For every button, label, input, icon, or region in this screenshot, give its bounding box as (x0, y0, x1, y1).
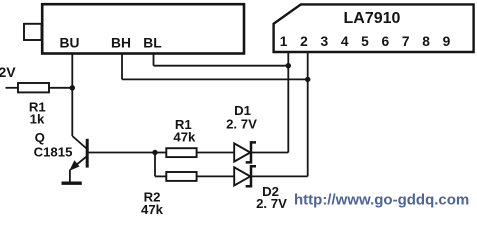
svg-text:2. 7V: 2. 7V (226, 117, 257, 132)
wire: pin1 riser (287, 52, 289, 153)
wire: R1 to node A (49, 87, 72, 89)
wire: node B down (154, 153, 156, 177)
svg-text:1: 1 (280, 34, 288, 49)
svg-text:1k: 1k (30, 112, 45, 127)
svg-text:2V: 2V (0, 64, 16, 80)
wire: R 47k lower to D2 (197, 175, 235, 177)
node C junction dot (pin1/BL) (286, 63, 291, 68)
zener diode D1 (234, 143, 250, 161)
zener diode D2 (234, 167, 250, 185)
svg-text:8: 8 (422, 34, 430, 49)
resistor R3 47k (lower) (166, 172, 196, 181)
node A junction dot (70, 85, 75, 90)
node D junction dot (pin2/BH) (305, 77, 310, 82)
transistor Q1 bar (86, 139, 89, 168)
svg-text:47k: 47k (141, 202, 164, 215)
node B junction dot (152, 150, 157, 155)
wire: pin2 riser (307, 52, 309, 176)
svg-text:5: 5 (361, 34, 369, 49)
wire: supply input to R1 (6, 87, 19, 89)
transistor Q1 C1815 collector lead (72, 136, 86, 149)
connector nub on tuner (24, 24, 42, 40)
svg-text:9: 9 (443, 34, 451, 49)
resistor R1 1k (18, 83, 49, 92)
wire: D2 cathode to pin2 riser (251, 175, 308, 177)
wire: BH pin down (121, 53, 123, 79)
wire: BU pin down to collector (71, 53, 73, 136)
svg-text:http://www.go-gddq.com: http://www.go-gddq.com (294, 192, 469, 209)
wire: BL to pin1 (154, 65, 289, 67)
svg-text:Q: Q (35, 130, 45, 145)
svg-text:C1815: C1815 (34, 145, 73, 160)
svg-text:6: 6 (382, 34, 390, 49)
wire: node B to R3 47k lower (155, 175, 166, 177)
wire: BH to pin2 (122, 78, 308, 80)
ground (62, 181, 82, 184)
svg-text:BL: BL (143, 36, 161, 51)
transistor Q1 emitter lead with arrow (72, 157, 87, 169)
wire: R 47k upper to D1 (197, 152, 235, 154)
svg-text:BH: BH (111, 36, 131, 51)
svg-text:3: 3 (320, 34, 328, 49)
wire: D1 cathode to pin1 riser (251, 152, 288, 154)
svg-text:2. 7V: 2. 7V (256, 196, 287, 211)
wire: BL pin down (153, 53, 155, 66)
svg-text:BU: BU (60, 36, 80, 51)
tuner block U1 (42, 4, 244, 53)
svg-text:4: 4 (341, 34, 349, 49)
IC U2 LA7910 outline (274, 4, 474, 52)
wire: base lead to node B (89, 152, 156, 154)
svg-text:7: 7 (402, 34, 410, 49)
svg-text:2: 2 (300, 34, 308, 49)
wire: node B to R2 47k upper (155, 152, 166, 154)
svg-text:LA7910: LA7910 (344, 10, 401, 27)
resistor R2 47k (upper) (166, 148, 196, 157)
svg-text:47k: 47k (173, 130, 196, 145)
